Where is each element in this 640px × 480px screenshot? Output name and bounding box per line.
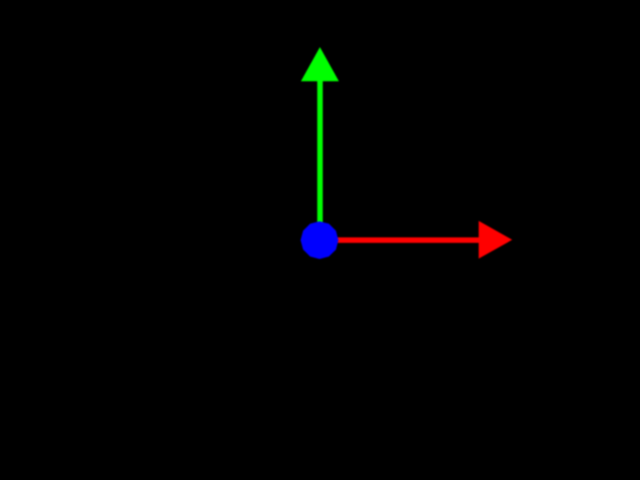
- wire: y-axis shaft (green): [317, 81, 323, 241]
- node: origin dot (blue 12-gon): [301, 221, 339, 259]
- wire: x-axis shaft (red): [320, 237, 480, 243]
- node: x-axis arrowhead (red): [479, 221, 513, 259]
- node: y-axis arrowhead (green): [301, 47, 339, 81]
